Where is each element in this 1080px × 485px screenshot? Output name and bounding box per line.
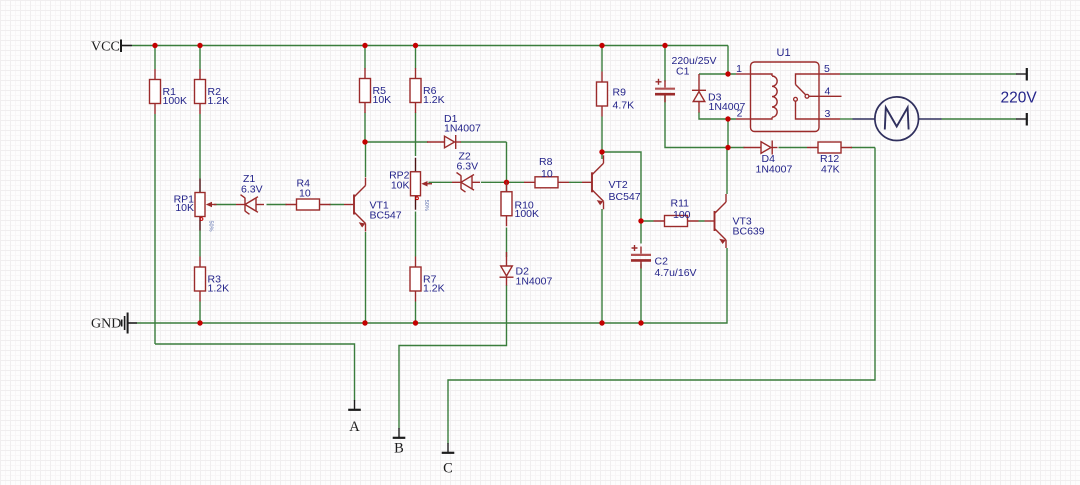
terminal A <box>348 400 361 435</box>
junction relay pin2 <box>725 116 730 121</box>
diode D3 <box>692 74 706 113</box>
svg-text:10: 10 <box>299 188 311 200</box>
label C2 value 4.7u/16V <box>655 256 697 280</box>
label Z1 value 6.3V <box>241 173 263 196</box>
wire to D4 <box>728 147 745 149</box>
wire D3 anode to relay pin2 <box>699 112 736 119</box>
label D4 value 1N4007 <box>756 153 793 176</box>
wire GND rail and VT3 emitter <box>137 248 727 323</box>
svg-text:B: B <box>394 441 404 457</box>
label D2 value 1N4007 <box>516 266 553 288</box>
junction VCC-R6 <box>413 43 418 48</box>
wire VCC rail <box>132 45 728 47</box>
wire RP2 wiper - Z2 - R8 - VT2 base <box>429 181 583 183</box>
svg-text:10K: 10K <box>175 202 194 214</box>
label R5 value 10K <box>373 85 392 106</box>
svg-text:R8: R8 <box>539 156 553 168</box>
wire VT1 collector up <box>365 142 367 177</box>
resistor R1 <box>150 69 161 114</box>
junction R5-D1 <box>362 139 367 144</box>
wire VT1 emitter down <box>365 232 367 323</box>
diode D2 <box>500 252 514 286</box>
junction GND-VT2 <box>599 320 604 325</box>
capacitor C2 <box>631 245 651 269</box>
resistor R3 <box>195 257 206 302</box>
wire D1 net <box>365 142 507 182</box>
wire Z1 to R4 to VT1 base <box>267 204 345 206</box>
potentiometer RP2 <box>411 158 433 210</box>
label VT2 value BC547 <box>609 179 641 203</box>
wire relay pin1 node <box>699 73 736 75</box>
wire R12 to terminal C <box>448 148 875 444</box>
label R1 value 100K <box>163 86 188 107</box>
svg-text:5: 5 <box>824 63 830 75</box>
junction GND-VT1 <box>362 320 367 325</box>
svg-text:1.2K: 1.2K <box>423 283 445 295</box>
svg-text:1.2K: 1.2K <box>208 283 230 295</box>
wire RP1 wiper to Z1 <box>214 204 236 206</box>
label R4 value 10 <box>297 178 311 200</box>
wire R2-RP1-R3 column <box>199 46 201 324</box>
svg-text:GND: GND <box>91 317 121 332</box>
zener diode Z2 <box>452 173 480 193</box>
wire R6-RP2-R7 column <box>415 46 417 324</box>
label RP2 value 10K <box>389 170 410 192</box>
svg-text:VT2: VT2 <box>609 179 628 191</box>
junction VCC-R2 <box>197 43 202 48</box>
resistor R7 <box>410 257 421 302</box>
svg-text:1N4007: 1N4007 <box>444 123 481 135</box>
wire C2 column <box>640 221 642 323</box>
junction relay pin1 <box>725 71 730 76</box>
resistor R2 <box>195 69 206 114</box>
svg-text:4: 4 <box>825 86 831 98</box>
ground flag GND <box>91 313 137 334</box>
svg-text:100K: 100K <box>163 95 188 107</box>
transistor VT2 <box>582 155 604 209</box>
label R12 value 47K <box>820 153 840 176</box>
svg-text:4.7u/16V: 4.7u/16V <box>655 267 697 279</box>
label R10 value 100K <box>515 200 540 221</box>
diode D4 <box>744 141 778 155</box>
wire A net below ground <box>155 344 355 401</box>
resistor R8 <box>524 177 569 188</box>
terminal C <box>442 443 455 477</box>
resistor R10 <box>501 181 512 226</box>
wire R11 to VT3 base <box>641 220 705 222</box>
svg-text:1.2K: 1.2K <box>208 95 230 107</box>
label C1 value 220u/25V <box>672 55 717 78</box>
transistor VT1 <box>344 178 366 232</box>
svg-text:1N4007: 1N4007 <box>756 164 793 176</box>
junction GND-C2 <box>638 320 643 325</box>
junction VCC-R5 <box>362 43 367 48</box>
svg-text:2: 2 <box>737 108 743 120</box>
junction VCC-R1 <box>152 43 157 48</box>
wire VCC rail drop to relay pin 1 <box>727 46 729 75</box>
label RP1 value 10K <box>174 194 195 215</box>
svg-text:1: 1 <box>736 63 742 75</box>
svg-text:1.2K: 1.2K <box>423 94 445 106</box>
svg-text:BC547: BC547 <box>609 191 641 203</box>
wire relay pin5 to 220V terminal <box>840 73 1016 75</box>
diode D1 <box>427 135 461 149</box>
wire motor to 220V terminal <box>942 118 1017 120</box>
label D1 value 1N4007 <box>444 113 481 135</box>
label D3 value 1N4007 <box>708 92 745 114</box>
label R8 value 10 <box>539 156 553 180</box>
svg-text:C: C <box>443 461 453 477</box>
svg-text:U1: U1 <box>777 47 791 59</box>
junction R9-VT2 <box>599 149 604 154</box>
label R7 value 1.2K <box>423 274 445 295</box>
wire D2 to terminal B <box>399 285 507 429</box>
junction VCC-R9 <box>599 43 604 48</box>
wire C1 bottom to D4 node <box>665 94 728 148</box>
wire R5 column <box>364 46 366 143</box>
svg-text:6.3V: 6.3V <box>457 161 479 173</box>
junction D4 node <box>725 145 730 150</box>
svg-text:BC547: BC547 <box>370 210 402 222</box>
resistor R5 <box>360 68 371 113</box>
svg-text:100K: 100K <box>515 208 540 220</box>
svg-text:47K: 47K <box>821 164 840 176</box>
junction R11-C2 <box>638 218 643 223</box>
svg-text:10K: 10K <box>391 180 410 192</box>
junction GND-R3 <box>197 320 202 325</box>
svg-text:R11: R11 <box>671 198 690 210</box>
svg-text:220V: 220V <box>1001 90 1038 107</box>
svg-text:3: 3 <box>825 108 831 120</box>
label VT3 value BC639 <box>733 216 765 238</box>
svg-text:50%: 50% <box>423 200 429 211</box>
svg-text:R9: R9 <box>613 87 627 99</box>
svg-text:1N4007: 1N4007 <box>516 276 553 288</box>
wire relay pin3 to motor <box>840 118 853 120</box>
terminal 220V line 5 <box>1016 68 1027 81</box>
junction VCC-C1 <box>662 43 667 48</box>
label R2 value 1.2K <box>208 86 230 107</box>
wire R9 column <box>601 46 603 153</box>
wire VT2 emitter down <box>601 209 603 323</box>
label R3 value 1.2K <box>208 274 230 295</box>
resistor R9 <box>597 72 608 117</box>
label Z2 value 6.3V <box>457 151 479 173</box>
zener diode Z1 <box>236 195 264 215</box>
wire relay pin2 down <box>727 119 729 148</box>
power flag VCC <box>91 40 132 55</box>
wire VT3 collector up <box>726 148 728 195</box>
wire R10 column <box>506 182 508 257</box>
wire VT2 collector up <box>601 152 603 159</box>
svg-text:C2: C2 <box>655 256 669 268</box>
svg-text:6.3V: 6.3V <box>241 184 263 196</box>
svg-text:4.7K: 4.7K <box>613 100 635 112</box>
wire R1 column <box>154 46 156 345</box>
resistor R11 <box>654 216 699 227</box>
svg-text:100: 100 <box>673 209 691 221</box>
label R9 value 4.7K <box>613 87 635 112</box>
relay U1 body <box>736 62 842 132</box>
svg-text:VCC: VCC <box>91 40 120 55</box>
junction Z2-R10 <box>504 180 509 185</box>
resistor R6 <box>410 68 421 113</box>
terminal 220V line 3 <box>1016 113 1027 126</box>
transistor VT3 <box>705 194 727 248</box>
resistor R12 <box>807 142 852 153</box>
terminal B <box>393 428 406 457</box>
junction GND-R7 <box>413 320 418 325</box>
svg-text:50%: 50% <box>208 221 214 232</box>
svg-text:A: A <box>349 419 360 435</box>
motor M <box>853 97 942 141</box>
svg-text:10K: 10K <box>373 94 392 106</box>
potentiometer RP1 <box>195 179 217 231</box>
svg-text:BC639: BC639 <box>733 226 765 238</box>
capacitor C1 <box>655 79 675 103</box>
label R6 value 1.2K <box>423 85 445 106</box>
svg-text:C1: C1 <box>676 66 690 78</box>
label R11 value 100 <box>671 198 691 222</box>
resistor R4 <box>286 199 331 210</box>
label VT1 value BC547 <box>370 200 402 222</box>
svg-text:10: 10 <box>541 168 553 180</box>
wire C1 top <box>664 46 666 82</box>
wire VT2 collector to R11 node <box>602 152 641 221</box>
wire D4 to R12 <box>779 147 876 149</box>
